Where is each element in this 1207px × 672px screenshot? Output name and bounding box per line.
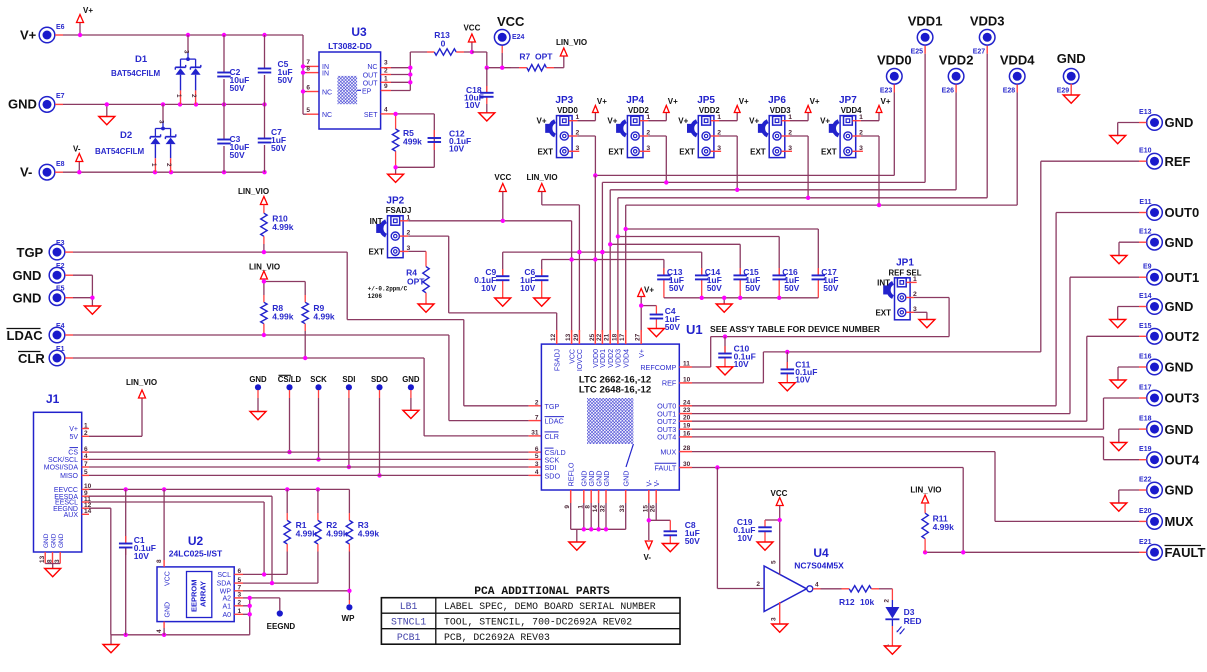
J1 GND pin names (bottom) [43, 533, 65, 548]
label C5 1uF 50V [278, 59, 293, 85]
svg-text:4.99k: 4.99k [313, 312, 335, 322]
label MUX (E20) [1139, 508, 1194, 529]
label GND (E22) [1139, 477, 1193, 498]
pin numbers D1 [175, 50, 197, 98]
wire GND rail [55, 104, 265, 116]
label R4 tolerance note [368, 286, 408, 300]
net label EEGND [267, 622, 296, 631]
wire C16 top lead [778, 237, 780, 298]
capacitor C15 [733, 275, 747, 279]
svg-text:EXT: EXT [368, 247, 384, 256]
capacitor C12 [428, 138, 442, 142]
wire C3 leads [223, 104, 225, 172]
wire JP7 pin1 to V+ [853, 113, 880, 121]
jumper JP1 header [883, 278, 910, 320]
svg-text:VDD1: VDD1 [908, 14, 943, 29]
label R9 4.99k [313, 303, 335, 322]
svg-text:21: 21 [604, 333, 611, 341]
node SCK bullet [315, 384, 321, 390]
U1 left pin names [545, 402, 566, 481]
junction VDD0 row / JP3 column [593, 173, 597, 177]
svg-text:50V: 50V [278, 75, 293, 85]
wire VDD2 net row [610, 85, 956, 333]
svg-text:MOSI/SDA: MOSI/SDA [44, 465, 79, 472]
svg-text:E6: E6 [56, 24, 65, 31]
wire V+ to U3 IN pins [303, 35, 307, 114]
wire SDI bullet drop [348, 390, 350, 467]
svg-text:A0: A0 [222, 612, 231, 619]
label GND (E18) [1139, 416, 1193, 437]
svg-text:CS/LD: CS/LD [278, 375, 302, 384]
label D3 RED [904, 607, 922, 626]
svg-text:E22: E22 [1139, 477, 1152, 484]
wire OUT3 net [692, 398, 1147, 429]
svg-text:SDO: SDO [545, 471, 561, 480]
svg-text:24LC025-I/ST: 24LC025-I/ST [169, 549, 223, 559]
power symbol LIN_VIO (R11) [910, 486, 941, 504]
svg-text:V+: V+ [639, 349, 646, 358]
label C12 0.1uF 10V [449, 129, 471, 154]
wire JP3 pin1 to V+ [569, 113, 596, 121]
wire EESCL row [89, 502, 264, 574]
terminal E15 OUT2 [1147, 329, 1163, 345]
junction SCK [316, 457, 320, 461]
svg-text:GND: GND [1165, 235, 1194, 250]
svg-text:LIN_VIO: LIN_VIO [126, 378, 157, 387]
U3 pin numbers left [306, 59, 310, 114]
terminal E11 OUT0 [1147, 205, 1163, 221]
label C17 1uF 50V [821, 267, 838, 293]
power symbol V+ (JP3) [593, 97, 608, 113]
svg-text:JP3: JP3 [555, 95, 573, 106]
svg-text:OUT4: OUT4 [1165, 452, 1200, 467]
svg-text:MUX: MUX [660, 447, 676, 456]
svg-text:2: 2 [884, 599, 891, 603]
svg-text:SCK/SCL: SCK/SCL [48, 457, 78, 464]
svg-text:4: 4 [156, 629, 163, 633]
svg-text:D2: D2 [120, 130, 132, 141]
junction dots row 259.5 [569, 257, 597, 261]
svg-text:E29: E29 [1057, 87, 1070, 94]
label VCC (E24) [497, 14, 525, 41]
ground (U4) [772, 624, 788, 632]
junction SDI [347, 465, 351, 469]
power symbol V+ (JP5) [734, 97, 749, 113]
svg-text:OUT: OUT [363, 80, 379, 87]
junction WP [347, 589, 351, 593]
svg-text:V+: V+ [644, 286, 654, 295]
svg-text:OUT1: OUT1 [1165, 270, 1200, 285]
svg-text:LDAC: LDAC [7, 328, 44, 343]
svg-text:D1: D1 [135, 54, 148, 65]
svg-text:NC: NC [322, 90, 332, 97]
svg-text:BAT54CFILM: BAT54CFILM [95, 147, 145, 156]
wire LDAC net [65, 335, 541, 421]
resistor R9 4.99k [302, 302, 308, 323]
svg-text:WP: WP [342, 614, 356, 623]
svg-text:OPT: OPT [535, 52, 553, 62]
node GND bullet (right) [408, 384, 414, 390]
net label WP [342, 614, 356, 623]
U3 pin names [322, 64, 378, 119]
svg-text:EXT: EXT [608, 147, 624, 156]
wire JP6 pin1 to V+ [782, 113, 809, 121]
wire R9 bottom lead [304, 324, 306, 358]
label U2 [188, 534, 204, 548]
svg-text:JP7: JP7 [839, 95, 857, 106]
D3 pin numbers [884, 599, 891, 648]
U2 pin 4 stub (bottom) [156, 622, 164, 635]
jumper JP4 header [616, 116, 643, 158]
svg-text:4.99k: 4.99k [933, 522, 955, 532]
terminal E29 GND [1063, 69, 1079, 85]
label C16 1uF 50V [782, 267, 799, 293]
svg-text:V+: V+ [83, 6, 93, 15]
wire C1 leads [125, 489, 127, 634]
resistor R12 10k [849, 586, 871, 592]
svg-text:LIN_VIO: LIN_VIO [249, 263, 280, 272]
junction dots U3 output bus [408, 66, 412, 85]
table PCA ADDITIONAL PARTS [381, 586, 680, 644]
terminal E27 VDD3 [979, 30, 995, 46]
svg-text:EXT: EXT [821, 147, 837, 156]
IC U2 24LC025 (body) [157, 567, 234, 622]
svg-text:E3: E3 [56, 240, 65, 247]
svg-text:2: 2 [384, 68, 388, 75]
junction EESCL/SCL [262, 572, 266, 576]
wire JP5 pin1 to V+ [711, 113, 738, 121]
resistor R10 4.99k [261, 213, 267, 236]
svg-text:50V: 50V [823, 283, 838, 293]
net label GND (bullet left) [249, 375, 267, 384]
svg-text:A2: A2 [222, 596, 231, 603]
power symbol LIN_VIO (above U1) [527, 173, 558, 192]
wire JP4 pin2 column [640, 136, 667, 183]
svg-text:V+: V+ [536, 117, 546, 126]
terminal E28 VDD4 [1009, 69, 1025, 85]
jumper JP6 pin numbers [788, 114, 792, 152]
wire E10 stub [1041, 160, 1147, 162]
svg-text:TOOL, STENCIL, 700-DC2692A REV: TOOL, STENCIL, 700-DC2692A REV02 [444, 616, 632, 627]
terminal E23 VDD0 [887, 69, 903, 85]
U2 pin 8 stub (top) [156, 489, 164, 567]
svg-text:LB1: LB1 [400, 601, 418, 612]
svg-text:3: 3 [771, 617, 778, 621]
svg-text:4.99k: 4.99k [272, 312, 294, 322]
stub U3 right pins [381, 68, 391, 114]
label GND (E12) [1139, 229, 1193, 250]
svg-text:3: 3 [384, 60, 388, 67]
svg-text:50V: 50V [685, 536, 700, 546]
resistor R4 OPT [423, 267, 429, 293]
svg-text:1206: 1206 [368, 293, 383, 300]
junction dots EEVCC row [124, 487, 321, 491]
svg-text:10V: 10V [737, 533, 752, 543]
ground (C6) [534, 298, 550, 306]
svg-text:LDAC: LDAC [545, 417, 564, 426]
svg-text:499k: 499k [403, 137, 422, 147]
svg-text:JP4: JP4 [626, 95, 644, 106]
resistor R5 499k [392, 129, 398, 151]
svg-text:2: 2 [190, 94, 197, 98]
svg-text:VCC: VCC [463, 24, 480, 33]
svg-text:REFCOMP: REFCOMP [640, 363, 676, 372]
label R10 4.99k [272, 214, 294, 233]
svg-text:50V: 50V [665, 322, 680, 332]
wire V- rail [55, 162, 265, 172]
wire VDD0 column to U1 [594, 175, 596, 332]
junction C11 tap [785, 350, 789, 354]
power symbol V+ (top left) [77, 6, 94, 23]
svg-text:E23: E23 [880, 87, 893, 94]
op-amp U4 NC7S04M5X (inverter symbol) [764, 566, 813, 612]
svg-text:10V: 10V [134, 551, 149, 561]
label CLR (E1) [18, 346, 65, 366]
svg-text:FAULT: FAULT [654, 463, 676, 472]
svg-text:INT: INT [877, 278, 890, 287]
svg-text:IN: IN [322, 71, 329, 78]
terminal E13 GND [1147, 115, 1163, 131]
power symbol V+ (JP6) [805, 97, 820, 113]
wire C17 row to VDD4 [626, 228, 819, 230]
label GND (E16) [1139, 354, 1193, 375]
svg-text:E18: E18 [1139, 416, 1152, 423]
capacitor C14 [695, 275, 709, 279]
wire R8/R9 top rail [264, 279, 305, 302]
wire E14 to ground [1118, 307, 1147, 320]
terminal E24 VCC [494, 30, 510, 46]
svg-text:E11: E11 [1139, 199, 1151, 206]
svg-text:VCC: VCC [165, 571, 172, 586]
wire U3 output bus [391, 52, 410, 91]
svg-text:VCC: VCC [569, 349, 576, 364]
svg-text:LIN_VIO: LIN_VIO [527, 173, 558, 182]
jumper JP7 labels [820, 95, 862, 156]
J1 GND pin numbers (bottom) [39, 555, 61, 563]
wire R8 bottom lead [263, 324, 265, 335]
svg-text:V+: V+ [678, 117, 688, 126]
svg-text:V+: V+ [810, 97, 820, 106]
svg-text:GND: GND [1165, 483, 1194, 498]
wire OUT0 net [692, 213, 1147, 406]
svg-text:STNCL1: STNCL1 [391, 616, 426, 627]
label 24LC025-I/ST [169, 549, 223, 559]
J1 pin names [44, 426, 79, 519]
svg-text:E26: E26 [942, 87, 955, 94]
wire C7 leads [264, 104, 266, 172]
wire SCK bullet drop [318, 390, 320, 459]
svg-text:SEE ASS'Y TABLE FOR DEVICE NUM: SEE ASS'Y TABLE FOR DEVICE NUMBER [710, 324, 881, 334]
junction EESDA/SDA [270, 581, 274, 585]
junction VCC/C19 [778, 518, 782, 522]
label C14 1uF 50V [705, 267, 722, 293]
ground (JP1 pin3) [919, 320, 935, 328]
wire C17 top lead [817, 229, 819, 298]
junction row 229 / VDD4 column [624, 227, 628, 231]
svg-text:CS: CS [68, 450, 78, 457]
svg-text:OUT0: OUT0 [1165, 205, 1200, 220]
terminal E26 VDD2 [948, 69, 964, 85]
junction dots VCC/E24/C18 [485, 66, 505, 70]
wire JP2 pin2 (FSADJ to U1) [400, 236, 557, 332]
U3 EP tie [357, 88, 372, 95]
terminal E18 GND [1147, 421, 1163, 437]
power symbol LIN_VIO (R8/R9) [249, 263, 280, 280]
IC U3 LT3082-DD (body) [319, 52, 381, 129]
svg-text:V-: V- [652, 479, 661, 486]
wire E18 to ground [1119, 429, 1147, 442]
wire GND bullet to ground (right) [410, 390, 412, 410]
ground (C10) [717, 367, 733, 375]
svg-text:NC: NC [367, 64, 377, 71]
wire OUT4 net [692, 437, 1147, 460]
svg-text:10V: 10V [520, 283, 535, 293]
stub JP1 pin1 [906, 281, 916, 283]
svg-text:7: 7 [535, 414, 539, 421]
stub R7 left [511, 67, 527, 69]
wire R10 top lead [263, 205, 265, 214]
svg-text:VDD4: VDD4 [1000, 53, 1035, 68]
resistor R1 4.99k [284, 520, 290, 544]
svg-text:5: 5 [306, 107, 310, 114]
label GND (E14) [1139, 293, 1193, 314]
wire C5 leads [264, 35, 266, 104]
wire OUT2 net [692, 336, 1147, 421]
svg-text:25: 25 [589, 333, 596, 341]
node SDI bullet [346, 384, 352, 390]
wire R13 right lead to VCC node [456, 42, 472, 52]
capacitor C13 [657, 275, 671, 279]
svg-text:MISO: MISO [60, 473, 78, 480]
wire GND bullet to ground (left) [257, 390, 259, 412]
svg-text:JP5: JP5 [697, 95, 715, 106]
terminal E2 GND [49, 267, 65, 283]
svg-text:VDD4: VDD4 [624, 349, 631, 368]
junction V- pins [647, 518, 651, 522]
svg-text:JP2: JP2 [386, 195, 404, 206]
table row STNCL1 [391, 616, 632, 627]
svg-text:E8: E8 [56, 161, 65, 168]
svg-text:E1: E1 [56, 346, 65, 353]
ground (J1) [45, 569, 61, 577]
label R2 4.99k [326, 520, 348, 539]
net label CS/LD (bullet) [278, 375, 302, 384]
svg-text:ARRAY: ARRAY [199, 581, 208, 607]
wire C10 leads [724, 337, 726, 367]
capacitor C1 [119, 544, 133, 548]
label VDD2 (E26) [939, 53, 974, 95]
resistor R11 4.99k [922, 513, 928, 539]
jumper JP2 labels [368, 195, 411, 256]
resistor R2 4.99k [315, 520, 321, 544]
svg-text:SDO: SDO [371, 375, 388, 384]
svg-text:50V: 50V [745, 283, 760, 293]
label R11 4.99k [933, 514, 955, 533]
wire U4 output [813, 588, 849, 590]
svg-text:E20: E20 [1139, 508, 1152, 515]
net label SCK (bullet) [310, 375, 327, 384]
svg-text:GND: GND [622, 471, 631, 487]
svg-text:SDA: SDA [217, 581, 232, 588]
svg-text:18: 18 [611, 333, 618, 341]
net label SDI (bullet) [342, 375, 355, 384]
svg-text:VDD1: VDD1 [600, 349, 607, 368]
jumper JP6 header [758, 116, 785, 158]
wire E13 to ground [1118, 123, 1147, 136]
capacitor C17 [812, 275, 826, 279]
jumper JP2 header [376, 216, 403, 258]
U1 bottom pin stubs [571, 490, 657, 503]
svg-text:INT: INT [370, 217, 383, 226]
jumper JP3 header [545, 116, 572, 158]
wire U3 SET to R5/C12 [391, 114, 434, 174]
label R4 OPT [406, 268, 425, 287]
label C18 10uF 10V [464, 85, 484, 110]
junction dots V- rail [77, 170, 267, 174]
U1 right pin stubs [679, 367, 692, 468]
wire VDD4 net row [626, 85, 1018, 333]
svg-text:NC: NC [322, 112, 332, 119]
junction E5 gnd [90, 296, 94, 300]
svg-text:U2: U2 [188, 534, 204, 548]
U2 EEPROM ARRAY box [187, 572, 212, 618]
label VDD0 (E23) [877, 53, 912, 95]
label LTC 2648-16,-12 [579, 385, 651, 396]
label OUT0 (E11) [1139, 199, 1199, 220]
svg-text:V+: V+ [20, 28, 37, 43]
svg-text:27: 27 [635, 333, 642, 341]
jumper JP7 header [829, 116, 856, 158]
label OUT2 (E15) [1139, 323, 1199, 344]
svg-text:VDD3: VDD3 [970, 14, 1005, 29]
svg-text:3: 3 [183, 50, 190, 54]
label R13 0 [434, 30, 450, 49]
ground (E18) [1111, 443, 1127, 451]
svg-text:E16: E16 [1139, 354, 1152, 361]
junction SDO [377, 473, 381, 477]
svg-text:GND: GND [13, 291, 42, 306]
svg-text:0: 0 [441, 39, 446, 49]
capacitor C3 [217, 140, 231, 144]
label FAULT (E21) [1139, 539, 1205, 560]
svg-text:LIN_VIO: LIN_VIO [238, 187, 269, 196]
power symbol LIN_VIO (J1) [126, 378, 157, 398]
svg-text:EXT: EXT [750, 147, 766, 156]
label NC7S04M5X [794, 561, 844, 571]
terminal E9 OUT1 [1147, 269, 1163, 285]
jumper JP3 labels [536, 95, 578, 156]
wire JP3 pin2 column [569, 136, 596, 175]
label OUT3 (E17) [1139, 385, 1199, 406]
svg-text:GND: GND [402, 375, 420, 384]
svg-text:VDD2: VDD2 [939, 53, 974, 68]
label REF (E10) [1139, 148, 1191, 169]
label VDD4 (E28) [1000, 53, 1035, 95]
table row LB1 [400, 601, 656, 612]
svg-text:E9: E9 [1143, 264, 1152, 271]
label C8 1uF 50V [685, 520, 700, 546]
capacitor C10 [718, 354, 732, 358]
terminal E10 REF [1147, 153, 1163, 169]
label R1 4.99k [296, 520, 318, 539]
wire C13 top lead [663, 260, 665, 298]
resistor R7 OPT [527, 65, 547, 71]
svg-text:50V: 50V [669, 283, 684, 293]
terminal E6 V+ [39, 27, 55, 43]
junction VDD2 row / JP column [735, 188, 739, 192]
label LTC 2662-16,-12 [579, 374, 651, 385]
U1 top pin stubs [557, 330, 642, 344]
